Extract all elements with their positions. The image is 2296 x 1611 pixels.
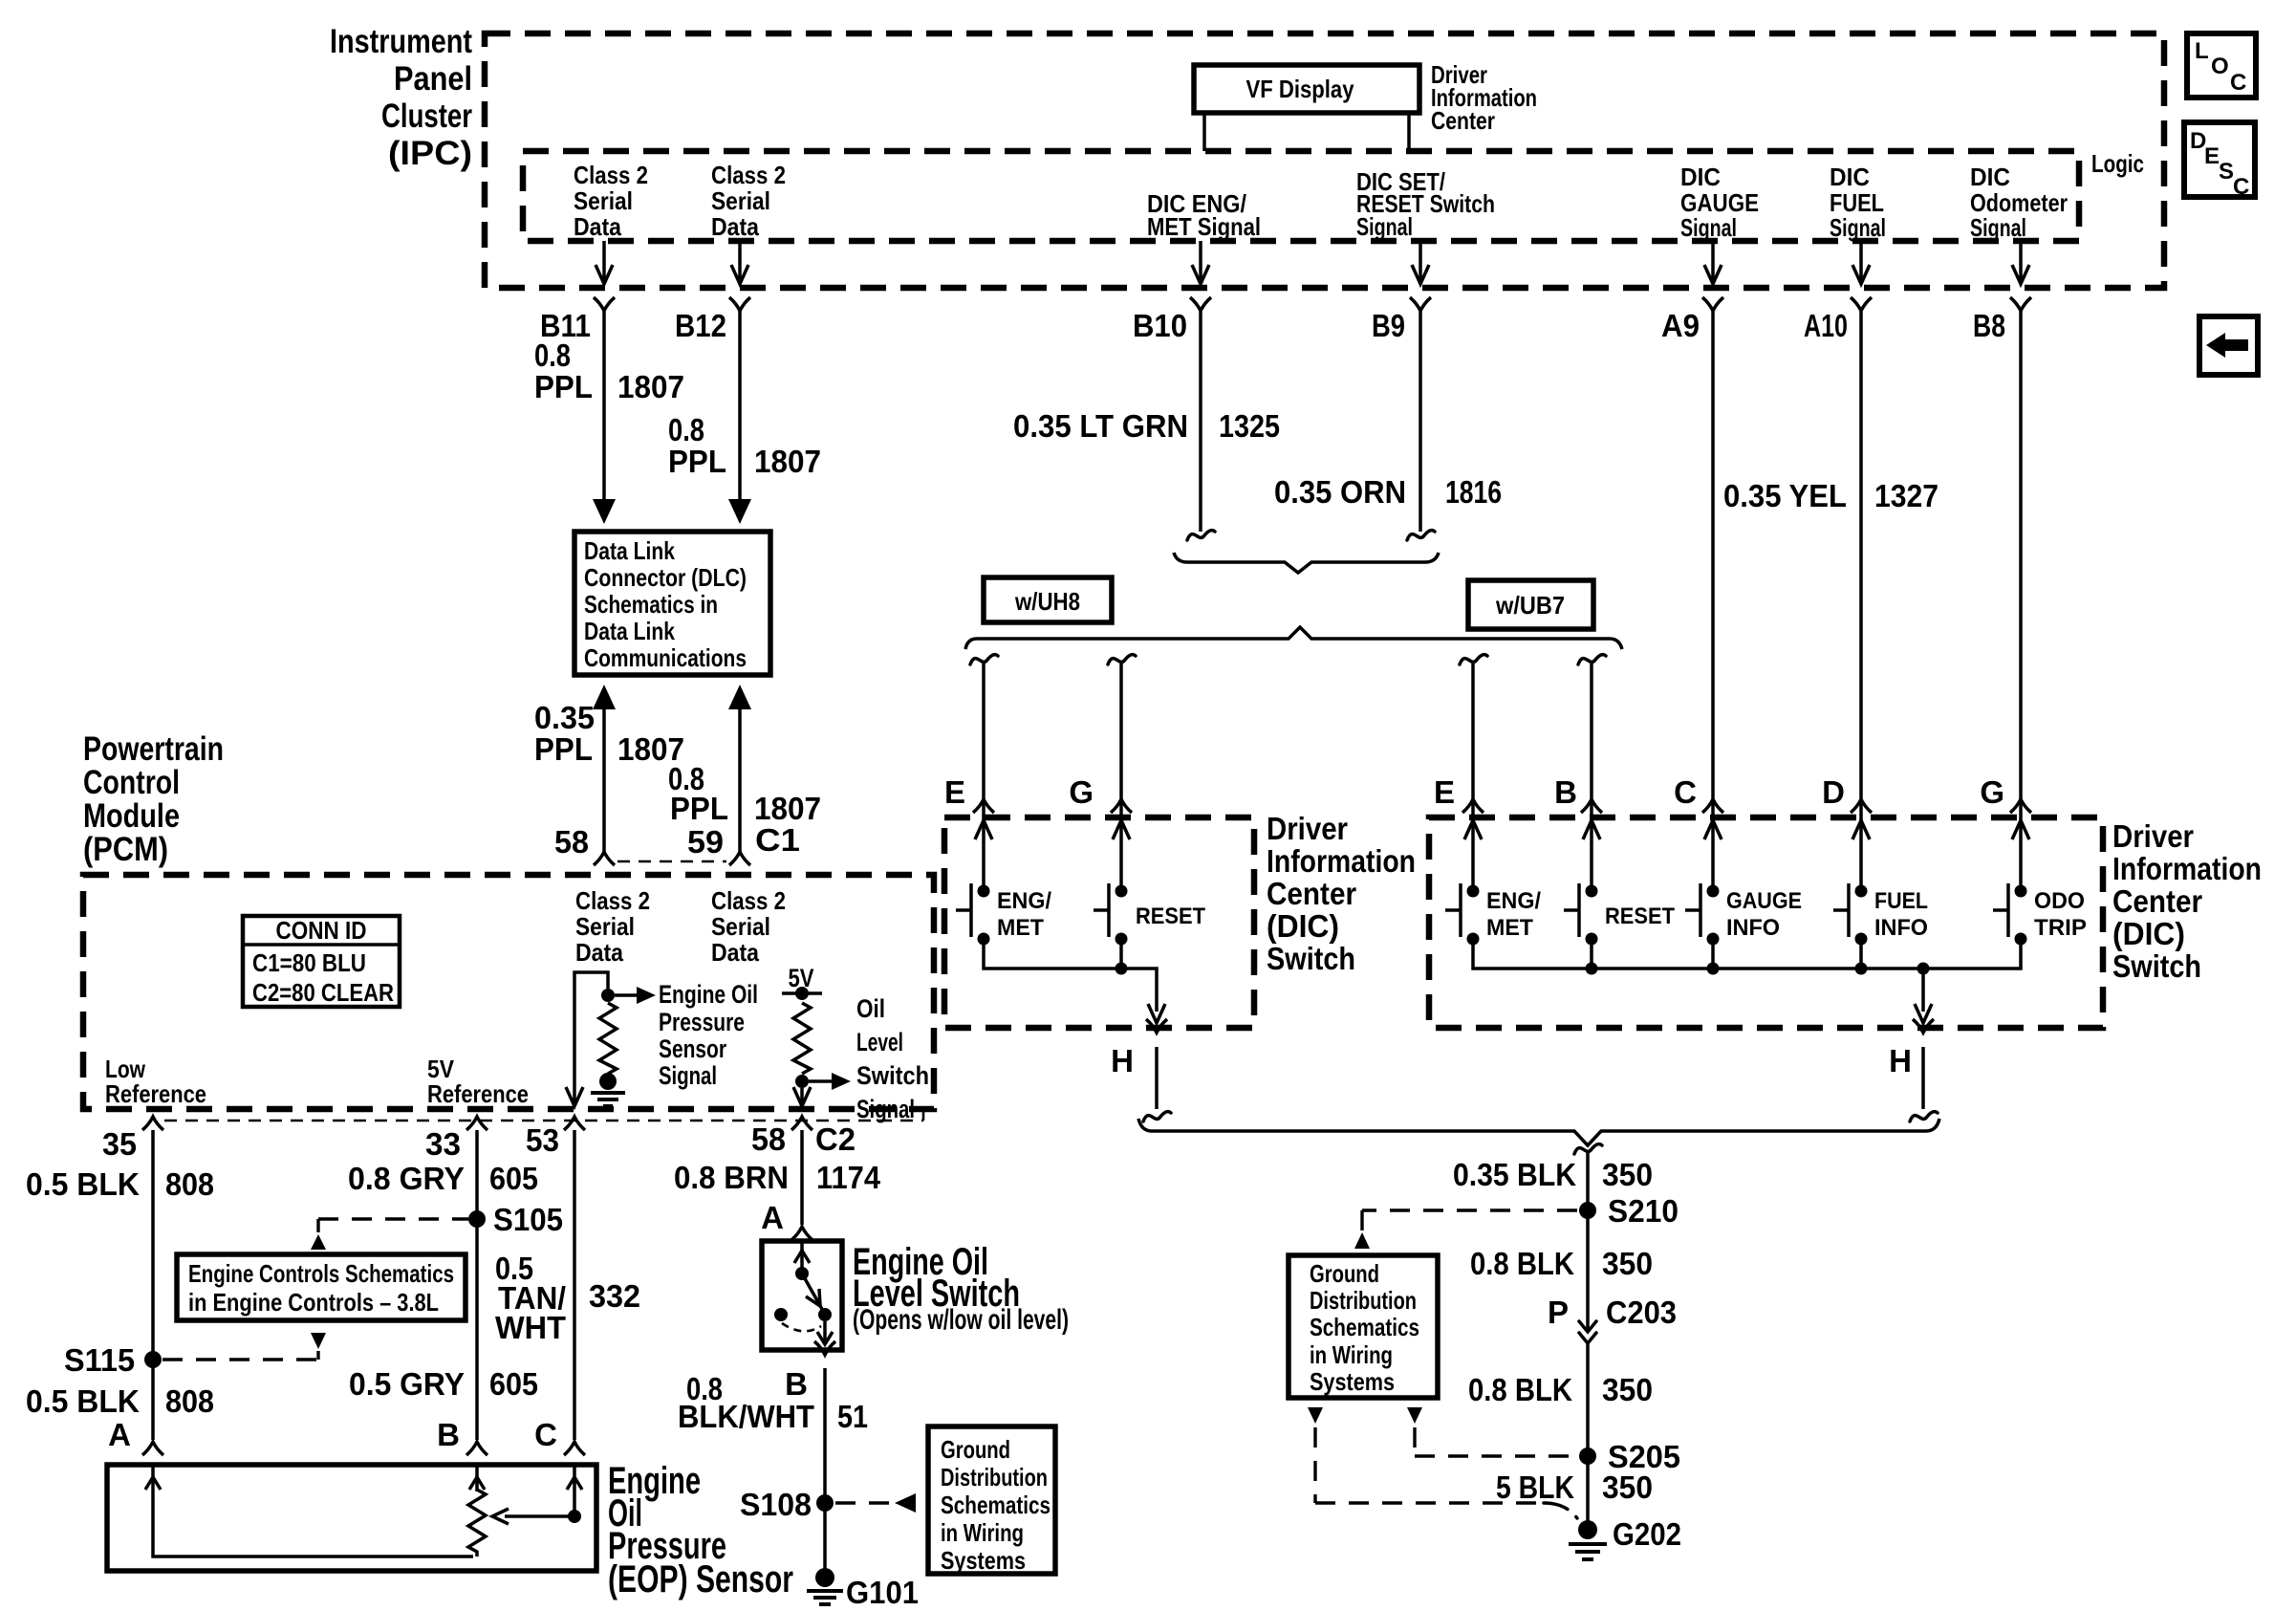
wire S210 dashed link	[1362, 1210, 1577, 1234]
svg-text:D: D	[1822, 774, 1845, 810]
pin 35 connector	[142, 1117, 163, 1130]
svg-text:w/UH8: w/UH8	[1014, 587, 1080, 616]
brace gathering B10 B9	[1174, 553, 1439, 573]
wire G right switch from B8	[2019, 311, 2023, 891]
svg-text:w/UB7: w/UB7	[1495, 591, 1565, 620]
switch RESET 1	[1116, 885, 1128, 898]
svg-text:Signal: Signal	[1680, 213, 1737, 242]
svg-text:Signal: Signal	[1830, 213, 1886, 242]
wire S115 dashed link	[162, 1351, 318, 1360]
svg-text:Level: Level	[856, 1028, 903, 1056]
svg-text:51: 51	[837, 1399, 868, 1434]
wire C2 to oil level switch	[800, 1130, 804, 1225]
svg-text:Serial: Serial	[711, 186, 770, 215]
svg-text:in Wiring: in Wiring	[1310, 1340, 1393, 1369]
svg-text:L: L	[2195, 38, 2209, 64]
svg-text:Powertrain: Powertrain	[83, 730, 224, 768]
ground G202	[1578, 1520, 1597, 1539]
svg-text:35: 35	[102, 1126, 137, 1162]
svg-text:DIC: DIC	[1680, 163, 1721, 191]
svg-text:INFO: INFO	[1726, 915, 1780, 941]
node oil level tap dot	[795, 1075, 809, 1088]
ground G101	[815, 1568, 834, 1587]
svg-text:in Engine Controls – 3.8L: in Engine Controls – 3.8L	[188, 1288, 439, 1317]
svg-text:Data: Data	[711, 212, 759, 241]
svg-text:S210: S210	[1608, 1193, 1679, 1229]
wire H left down	[1155, 1047, 1159, 1109]
svg-text:VF Display: VF Display	[1246, 75, 1354, 103]
svg-text:PPL: PPL	[534, 731, 593, 767]
svg-text:Reference: Reference	[105, 1079, 206, 1108]
svg-text:Serial: Serial	[575, 912, 635, 941]
svg-text:Data Link: Data Link	[584, 536, 675, 565]
svg-text:Schematics: Schematics	[941, 1491, 1051, 1519]
svg-text:Information: Information	[1267, 843, 1416, 879]
svg-text:E: E	[944, 774, 965, 810]
wire EOP pin C internal wiper	[505, 1465, 574, 1516]
svg-text:Signal: Signal	[856, 1095, 915, 1123]
svg-text:Switch: Switch	[2112, 948, 2201, 984]
svg-text:C: C	[534, 1417, 557, 1452]
svg-text:ODO: ODO	[2034, 888, 2085, 914]
svg-text:TRIP: TRIP	[2034, 915, 2087, 941]
CONN ID box	[243, 916, 400, 1007]
svg-text:(PCM): (PCM)	[83, 831, 168, 868]
wire B12 to DLC	[738, 311, 742, 503]
svg-text:Oil: Oil	[856, 994, 885, 1023]
svg-text:1807: 1807	[754, 791, 821, 826]
svg-text:Engine Oil: Engine Oil	[659, 980, 758, 1009]
node S105	[468, 1210, 486, 1228]
svg-text:G101: G101	[846, 1575, 919, 1610]
svg-text:Module: Module	[83, 797, 180, 835]
switch ENG/MET 2	[1467, 885, 1480, 898]
svg-text:B9: B9	[1372, 308, 1405, 343]
arrows below box 2 (down)	[1308, 1407, 1323, 1424]
wire oil level tap arrow	[809, 1079, 832, 1083]
svg-text:B8: B8	[1973, 308, 2005, 343]
svg-text:BLK/WHT: BLK/WHT	[678, 1399, 814, 1434]
wire D right switch from A10	[1859, 311, 1863, 891]
svg-text:350: 350	[1602, 1372, 1653, 1407]
svg-text:0.8 GRY: 0.8 GRY	[348, 1161, 465, 1196]
switch blade	[800, 1241, 804, 1274]
connector C1 thin dashed line	[617, 860, 726, 863]
svg-text:Connector (DLC): Connector (DLC)	[584, 563, 747, 592]
svg-text:B: B	[1554, 774, 1577, 810]
wire B11 to DLC	[602, 311, 606, 503]
svg-text:1325: 1325	[1219, 408, 1280, 444]
wire E left switch	[970, 655, 998, 664]
svg-text:1327: 1327	[1874, 478, 1939, 513]
svg-text:Class 2: Class 2	[711, 161, 786, 189]
svg-text:0.8 BRN: 0.8 BRN	[674, 1160, 789, 1195]
wire logic to IPC edge B12	[738, 241, 742, 282]
svg-text:INFO: INFO	[1874, 915, 1928, 941]
svg-text:350: 350	[1602, 1469, 1653, 1505]
resistor EOP element	[468, 1490, 486, 1557]
svg-text:RESET: RESET	[1605, 903, 1675, 929]
svg-text:MET Signal: MET Signal	[1147, 212, 1261, 241]
switch RESET 2	[1586, 885, 1598, 898]
svg-text:33: 33	[425, 1126, 461, 1162]
svg-text:(DIC): (DIC)	[2112, 916, 2185, 951]
pin 58 C2 connector	[791, 1117, 812, 1130]
svg-text:P: P	[1548, 1295, 1569, 1330]
resistor R int 2	[793, 1003, 811, 1074]
svg-text:Reference: Reference	[427, 1079, 529, 1108]
switch ODO TRIP	[2015, 885, 2027, 898]
option box w/UB7	[1468, 580, 1593, 629]
svg-text:CONN ID: CONN ID	[276, 916, 367, 945]
svg-text:58: 58	[751, 1121, 786, 1157]
svg-text:Communications: Communications	[584, 643, 747, 672]
pin 58 (C1)	[594, 852, 615, 865]
svg-text:Pressure: Pressure	[659, 1008, 745, 1036]
svg-text:59: 59	[687, 824, 724, 860]
svg-text:0.8: 0.8	[534, 337, 571, 373]
wire logic to IPC edge B11	[602, 241, 606, 282]
svg-text:S115: S115	[64, 1342, 135, 1378]
svg-text:5 BLK: 5 BLK	[1496, 1469, 1574, 1505]
wire DLC to PCM pin 59	[728, 685, 751, 709]
svg-text:0.8 BLK: 0.8 BLK	[1470, 1246, 1574, 1281]
svg-text:(Opens w/low oil level): (Opens w/low oil level)	[853, 1304, 1069, 1336]
node wiper junction	[568, 1510, 581, 1523]
wire logic to IPC edge B8	[2019, 241, 2023, 282]
wire logic to IPC edge B9	[1419, 241, 1422, 282]
svg-text:O: O	[2211, 54, 2229, 79]
svg-text:0.5 GRY: 0.5 GRY	[349, 1366, 465, 1402]
wire to pin 58 C2	[800, 1088, 804, 1104]
svg-text:S: S	[2219, 159, 2234, 185]
svg-text:(DIC): (DIC)	[1267, 908, 1339, 944]
svg-text:332: 332	[589, 1278, 640, 1314]
svg-text:0.35 LT GRN: 0.35 LT GRN	[1013, 408, 1188, 444]
pin B8 connector	[2010, 297, 2031, 311]
svg-text:Class 2: Class 2	[575, 886, 650, 915]
wire S108 dashed link	[835, 1501, 894, 1504]
svg-text:C2=80 CLEAR: C2=80 CLEAR	[252, 978, 394, 1007]
svg-text:53: 53	[526, 1122, 559, 1158]
svg-text:H: H	[1111, 1043, 1134, 1078]
svg-text:1807: 1807	[617, 369, 684, 404]
svg-text:G: G	[1980, 774, 2004, 810]
wire B9 down	[1419, 311, 1422, 532]
Powertrain Control Module (PCM) dashed box	[83, 875, 934, 1109]
LOC box	[2187, 33, 2256, 98]
svg-text:Class 2: Class 2	[711, 886, 786, 915]
svg-text:Information: Information	[2112, 851, 2262, 886]
svg-text:Signal: Signal	[1970, 213, 2026, 242]
pin A10 connector	[1851, 297, 1872, 311]
svg-text:Driver: Driver	[1267, 811, 1348, 846]
arrow to Engine Controls box (up)	[311, 1234, 326, 1250]
arrow to Engine Controls box (down)	[311, 1333, 326, 1349]
Engine Oil Level Switch box	[762, 1241, 842, 1350]
svg-text:A10: A10	[1804, 308, 1848, 343]
svg-text:Schematics in: Schematics in	[584, 590, 718, 619]
svg-text:1816: 1816	[1445, 474, 1502, 510]
svg-text:Center: Center	[1431, 106, 1495, 135]
ground symbol internal	[591, 1093, 625, 1106]
svg-text:B: B	[437, 1417, 460, 1452]
svg-text:S108: S108	[740, 1487, 812, 1522]
svg-text:1807: 1807	[754, 444, 821, 479]
svg-text:808: 808	[165, 1383, 214, 1419]
pin A9 connector	[1702, 297, 1723, 311]
svg-text:58: 58	[554, 824, 589, 860]
wire signal tap arrow	[615, 993, 637, 997]
svg-text:Distribution: Distribution	[941, 1463, 1048, 1491]
wire 53 to EOP C	[573, 1130, 576, 1440]
svg-text:Signal: Signal	[1356, 212, 1413, 241]
svg-text:B10: B10	[1133, 308, 1187, 343]
svg-text:605: 605	[489, 1161, 538, 1196]
resistor R int 1	[599, 1003, 617, 1074]
svg-text:0.8: 0.8	[668, 412, 704, 447]
svg-text:Distribution: Distribution	[1310, 1286, 1417, 1315]
svg-text:605: 605	[489, 1366, 538, 1402]
wire 33 to EOP B	[475, 1130, 479, 1440]
switch FUEL INFO	[1855, 885, 1868, 898]
wire logic to IPC edge A10	[1859, 241, 1863, 282]
svg-text:G: G	[1069, 774, 1094, 810]
pin B10 connector	[1190, 297, 1211, 311]
svg-text:in Wiring: in Wiring	[941, 1518, 1024, 1547]
node EOP sensor signal junction	[601, 989, 615, 1002]
svg-text:C1=80 BLU: C1=80 BLU	[252, 948, 366, 977]
DIC switch box 2 dashed	[1429, 817, 2103, 1028]
svg-text:MET: MET	[997, 915, 1044, 941]
svg-text:WHT: WHT	[495, 1310, 566, 1345]
svg-text:B12: B12	[675, 308, 726, 343]
wiper arrowhead	[492, 1509, 509, 1524]
wire logic to IPC edge A9	[1711, 241, 1715, 282]
pin H right connector	[1913, 1019, 1934, 1033]
switch ENG/MET 1	[978, 885, 990, 898]
svg-text:0.35: 0.35	[534, 700, 595, 735]
svg-text:G202: G202	[1613, 1516, 1681, 1552]
pin B11 connector	[594, 297, 615, 311]
svg-text:PPL: PPL	[534, 369, 593, 404]
wire B10 down	[1199, 311, 1202, 532]
svg-text:PPL: PPL	[670, 791, 728, 826]
svg-text:Center: Center	[1267, 876, 1356, 911]
ground internal dot	[599, 1073, 617, 1090]
option bus line	[965, 627, 1622, 649]
back arrow box	[2199, 316, 2258, 375]
wire G202 dashed link	[1315, 1427, 1544, 1503]
svg-text:B: B	[785, 1366, 808, 1402]
svg-text:350: 350	[1602, 1246, 1653, 1281]
option box w/UH8	[984, 577, 1112, 622]
svg-text:0.35 ORN: 0.35 ORN	[1274, 474, 1406, 510]
svg-text:Switch: Switch	[856, 1061, 929, 1090]
svg-text:ENG/: ENG/	[997, 888, 1051, 914]
node S115	[144, 1351, 162, 1368]
svg-text:A: A	[761, 1200, 784, 1235]
wire DLC to PCM pin 58	[593, 685, 616, 709]
wire S105 dashed link	[318, 1219, 468, 1232]
svg-text:808: 808	[165, 1166, 214, 1202]
svg-text:350: 350	[1602, 1157, 1653, 1192]
svg-text:Schematics: Schematics	[1310, 1313, 1419, 1341]
svg-text:C1: C1	[755, 822, 800, 858]
svg-text:Data Link: Data Link	[584, 617, 675, 645]
wire S205 dashed link	[1415, 1427, 1575, 1456]
svg-text:PPL: PPL	[668, 444, 726, 479]
Data Link Connector (DLC) reference box	[574, 532, 770, 675]
pin B9 connector	[1410, 297, 1431, 311]
svg-text:0.5 BLK: 0.5 BLK	[26, 1166, 140, 1202]
node S205	[1579, 1448, 1596, 1465]
svg-text:A9: A9	[1661, 308, 1700, 343]
svg-text:MET: MET	[1486, 915, 1533, 941]
svg-text:0.35 YEL: 0.35 YEL	[1723, 478, 1847, 513]
wire G left switch	[1108, 655, 1136, 664]
wire 35 to EOP A	[151, 1130, 155, 1440]
wire B right switch	[1578, 655, 1606, 664]
wire H right down	[1921, 1047, 1925, 1109]
svg-text:Panel: Panel	[394, 60, 472, 98]
arrow to ground distribution box (left)	[895, 1493, 916, 1513]
wire switch2 bottom bus	[1473, 945, 2021, 969]
svg-text:1174: 1174	[816, 1160, 881, 1195]
wire EOP pin B internal	[475, 1465, 479, 1491]
pin 53 connector	[564, 1117, 585, 1130]
svg-text:Logic: Logic	[2091, 149, 2144, 178]
node 5V tee dot	[795, 987, 809, 1000]
svg-text:0.5 BLK: 0.5 BLK	[26, 1383, 140, 1419]
svg-text:FUEL: FUEL	[1874, 888, 1928, 914]
arrow to ground distribution box 2 (up)	[1354, 1232, 1370, 1249]
svg-text:Serial: Serial	[574, 186, 633, 215]
node S210	[1579, 1202, 1596, 1219]
svg-text:S105: S105	[493, 1202, 563, 1237]
pin B label switch	[814, 1341, 835, 1355]
svg-text:DIC: DIC	[1830, 163, 1870, 191]
svg-text:Center: Center	[2112, 883, 2202, 919]
svg-text:0.8 BLK: 0.8 BLK	[1468, 1372, 1572, 1407]
svg-text:RESET: RESET	[1136, 903, 1205, 929]
svg-text:Control: Control	[83, 764, 180, 801]
Ground Distribution reference box 2	[1289, 1255, 1438, 1398]
wire VF display stub left	[1202, 113, 1206, 151]
wire C right switch from A9	[1711, 311, 1715, 891]
svg-text:Signal: Signal	[659, 1061, 717, 1090]
svg-text:C2: C2	[815, 1121, 856, 1157]
pin 33 connector	[466, 1117, 487, 1130]
svg-text:DIC: DIC	[1970, 163, 2010, 191]
Engine Controls Schematics reference box	[177, 1254, 466, 1320]
svg-text:C203: C203	[1606, 1295, 1677, 1330]
wire EOP pin A internal	[153, 1465, 473, 1557]
svg-text:C: C	[2233, 174, 2249, 200]
wire switch B to G101	[823, 1368, 827, 1571]
svg-text:A: A	[108, 1417, 131, 1452]
VF Display box	[1194, 65, 1419, 113]
pin 59 (C1)	[729, 852, 750, 865]
svg-text:ENG/: ENG/	[1486, 888, 1541, 914]
Instrument Panel Cluster (IPC) dashed box	[485, 33, 2164, 288]
brace gathering H wires	[1138, 1119, 1939, 1145]
svg-text:Driver: Driver	[2112, 818, 2194, 854]
svg-text:E: E	[1434, 774, 1455, 810]
pin B12 connector	[729, 297, 750, 311]
wire ground chain top	[1574, 1144, 1602, 1154]
svg-text:Ground: Ground	[941, 1435, 1010, 1464]
svg-text:H: H	[1889, 1043, 1912, 1078]
svg-text:Data: Data	[575, 938, 623, 967]
wire E right switch	[1460, 655, 1487, 664]
node S108	[816, 1494, 834, 1512]
wire VF display stub right	[1407, 113, 1411, 151]
svg-text:Engine Controls Schematics: Engine Controls Schematics	[188, 1259, 454, 1288]
Engine Oil Pressure (EOP) Sensor box	[107, 1465, 596, 1571]
svg-text:Systems: Systems	[941, 1546, 1026, 1575]
DIC switch box 1 dashed	[944, 817, 1254, 1028]
svg-text:GAUGE: GAUGE	[1726, 888, 1802, 914]
svg-text:(IPC): (IPC)	[388, 135, 472, 172]
svg-text:Systems: Systems	[1310, 1367, 1395, 1396]
DESC box	[2184, 122, 2255, 197]
wire 5V tee	[782, 991, 822, 995]
connector C2 thin dashed line	[164, 1111, 923, 1121]
svg-text:Serial: Serial	[711, 912, 770, 941]
svg-text:(EOP) Sensor: (EOP) Sensor	[608, 1558, 793, 1600]
svg-text:E: E	[2204, 143, 2220, 169]
switch GAUGE INFO	[1707, 885, 1720, 898]
Ground Distribution reference box 1	[928, 1426, 1055, 1574]
svg-text:C: C	[1674, 774, 1697, 810]
wire logic to IPC edge B10	[1199, 241, 1202, 282]
svg-text:Class 2: Class 2	[574, 161, 648, 189]
svg-text:Cluster: Cluster	[381, 98, 472, 135]
Logic dashed box	[523, 151, 2079, 241]
svg-text:Data: Data	[574, 212, 621, 241]
svg-text:C: C	[2230, 70, 2246, 96]
svg-text:Data: Data	[711, 938, 759, 967]
wire switch1 bottom bus	[984, 945, 1157, 1012]
svg-text:Ground: Ground	[1310, 1259, 1379, 1288]
svg-text:Sensor: Sensor	[659, 1034, 726, 1063]
svg-text:Instrument: Instrument	[330, 23, 472, 60]
pin H left connector	[1146, 1019, 1167, 1033]
svg-text:0.35 BLK: 0.35 BLK	[1453, 1157, 1576, 1192]
svg-text:Switch: Switch	[1267, 941, 1355, 976]
wire pin 53 internal L	[574, 972, 608, 1104]
